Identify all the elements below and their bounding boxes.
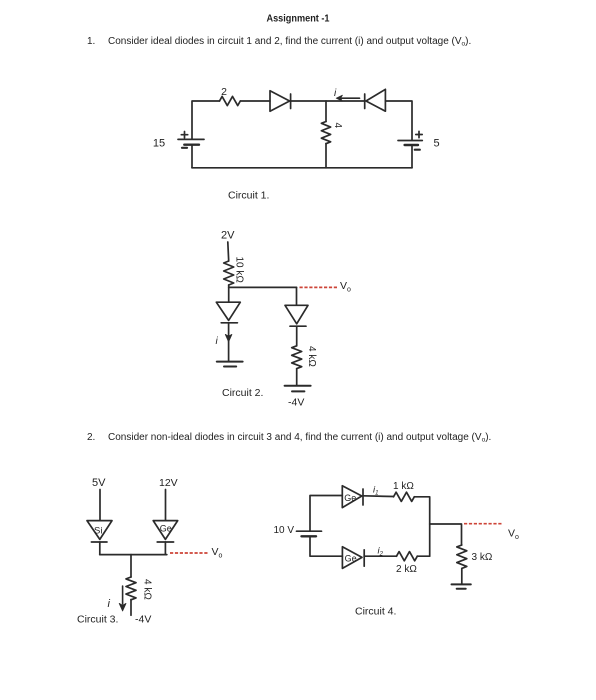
battery V2 5V (398, 131, 422, 149)
diode D3 (down) (216, 302, 240, 323)
wire: top-left from battery to resistor (192, 101, 220, 139)
current arrow i (circuit 3) (122, 586, 124, 604)
diode D5 Si (down) (87, 521, 112, 542)
ground (circuit 4) (452, 584, 471, 588)
svg-text:15: 15 (153, 138, 165, 150)
wire: bus to resistor 4k (130, 555, 132, 577)
wire: resistor to node B (228, 285, 230, 302)
svg-text:Circuit 4.: Circuit 4. (355, 606, 396, 618)
svg-text:2V: 2V (221, 230, 235, 242)
wire: diode D1 to node A and to diode D2 (291, 100, 365, 102)
wire: diode D4 to resistor 4k (296, 326, 298, 346)
svg-text:-4V: -4V (288, 397, 304, 409)
svg-text:i: i (216, 336, 219, 347)
svg-text:Vo: Vo (340, 280, 351, 294)
resistor R 2ohm (220, 96, 241, 105)
svg-text:Ge: Ge (344, 493, 356, 503)
svg-text:Circuit 2.: Circuit 2. (222, 387, 263, 399)
wire: resistor 4k to -4V ground (296, 369, 298, 386)
resistor R 4ohm (vertical) (321, 122, 330, 144)
svg-text:1.: 1. (87, 36, 95, 47)
wire: resistor 1k to right rail (414, 497, 429, 556)
diode D7 Ge (right) (342, 486, 363, 508)
resistor 4k (circuit 2) (292, 346, 302, 369)
wire: node C to output branch (430, 524, 462, 545)
wire: resistor 3k to ground (461, 569, 463, 585)
wire: diode D2 to right battery (385, 101, 412, 140)
wire: node B horizontal to Vo branch (229, 286, 297, 288)
svg-text:-4V: -4V (135, 614, 151, 626)
wire: Vo branch down to diode D4 (296, 287, 298, 305)
svg-text:3 kΩ: 3 kΩ (472, 552, 493, 563)
wire: bottom rail (192, 167, 412, 169)
diode D6 Ge (down) (153, 521, 178, 542)
svg-text:2: 2 (221, 86, 227, 98)
svg-text:2.: 2. (87, 432, 95, 443)
battery V1 15V (178, 132, 204, 148)
diode D2 (pointing left) (365, 89, 386, 111)
battery 10V (297, 531, 322, 536)
svg-text:Ge: Ge (160, 524, 172, 534)
svg-text:12V: 12V (159, 477, 178, 489)
svg-text:i1: i1 (373, 485, 378, 497)
svg-text:10 kΩ: 10 kΩ (234, 257, 245, 284)
svg-text:4 kΩ: 4 kΩ (142, 579, 153, 600)
diode D8 Ge (right) (342, 547, 364, 569)
svg-text:5: 5 (434, 138, 440, 150)
ground (circuit 2 left) (217, 362, 243, 367)
wire: from 12V label down (165, 490, 167, 521)
current arrow i (circuit 1) (336, 95, 359, 101)
diode D4 (down) (285, 305, 308, 326)
current arrow i (circuit 2) (225, 334, 232, 341)
resistor 4k (circuit 3) (126, 577, 136, 600)
resistor 1k (394, 492, 415, 501)
svg-text:Consider non-ideal diodes in c: Consider non-ideal diodes in circuit 3 a… (108, 432, 491, 444)
wire: from 2V down to resistor (227, 242, 230, 261)
svg-text:Circuit 3.: Circuit 3. (77, 614, 118, 626)
wire: resistor 2k to right rail (417, 555, 429, 557)
svg-text:5V: 5V (92, 477, 106, 489)
diode D1 (270, 91, 291, 112)
wire: bus (circuit 3) (100, 554, 167, 556)
wire: resistor 4 to bottom rail (325, 144, 327, 168)
wire: resistor to diode D1 (241, 100, 271, 102)
ground -4V (circuit 2) (285, 386, 311, 392)
red dashed Vo lead (circuit 4) (464, 523, 503, 525)
svg-text:1 kΩ: 1 kΩ (393, 481, 414, 492)
svg-text:4: 4 (332, 123, 343, 129)
wire: left battery bottom to rail (191, 145, 193, 168)
wire: resistor to -4V terminal (130, 600, 132, 616)
svg-text:Assignment -1: Assignment -1 (267, 13, 330, 25)
wire: D7 to resistor 1k (363, 495, 394, 498)
wire: D6 to bus (164, 542, 166, 555)
wire: from 5V label down (99, 490, 101, 521)
svg-text:i: i (108, 598, 111, 610)
wire: diode D3 to ground with current arrow (228, 323, 230, 362)
svg-text:i: i (334, 88, 337, 99)
wire: D8 to resistor 2k (364, 555, 396, 557)
node A and resistor branch wire top (325, 101, 327, 122)
svg-text:Circuit 1.: Circuit 1. (228, 190, 269, 202)
svg-text:2 kΩ: 2 kΩ (396, 564, 417, 575)
red dashed Vo lead (circuit 3) (170, 552, 209, 554)
svg-text:i2: i2 (378, 546, 384, 558)
wire: battery bottom to bottom branch (310, 536, 342, 556)
svg-text:Si: Si (94, 526, 102, 537)
resistor 10k (224, 261, 234, 285)
svg-text:Vo: Vo (212, 546, 223, 560)
svg-text:Vo: Vo (508, 528, 519, 542)
wire: right battery to bottom rail (411, 145, 413, 168)
svg-text:10 V: 10 V (274, 525, 295, 536)
svg-text:4 kΩ: 4 kΩ (306, 346, 317, 367)
wire: battery top to top branch (310, 496, 342, 532)
resistor 2k (397, 552, 418, 561)
resistor 3k (457, 545, 467, 568)
wire: D5 to bus (99, 542, 101, 555)
svg-text:Consider ideal diodes in circu: Consider ideal diodes in circuit 1 and 2… (108, 36, 471, 48)
red dashed Vo lead (circuit 2) (300, 286, 339, 288)
svg-text:Ge: Ge (345, 554, 357, 564)
